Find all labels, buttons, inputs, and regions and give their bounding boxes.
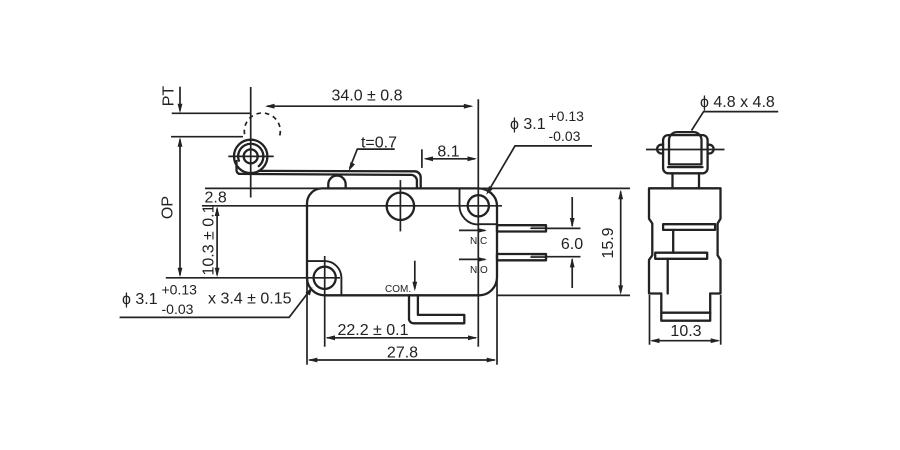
svg-text:PT: PT bbox=[161, 86, 178, 107]
svg-text:15.9: 15.9 bbox=[600, 227, 617, 258]
34.0 dim line bbox=[267, 105, 471, 107]
rv body outline bbox=[649, 188, 721, 293]
svg-text:ϕ 3.1: ϕ 3.1 bbox=[122, 291, 158, 308]
svg-text:22.2 ± 0.1: 22.2 ± 0.1 bbox=[337, 322, 408, 339]
svg-text:OP: OP bbox=[160, 196, 177, 219]
phi3.1 top leader bbox=[488, 146, 592, 192]
bottom-left mounting hole bbox=[314, 267, 336, 289]
roller inner arc bbox=[238, 144, 263, 166]
COM down arrow line bbox=[414, 261, 416, 289]
middle circle bbox=[387, 193, 414, 220]
lever strip top bbox=[259, 171, 421, 188]
rv 10.3 right ext bbox=[720, 295, 722, 345]
8.1 tick bbox=[421, 149, 423, 168]
15.9 arrows bbox=[618, 190, 623, 200]
rv roller bbox=[669, 132, 702, 164]
10.3 dim line bbox=[216, 209, 218, 275]
svg-text:ϕ 4.8 x 4.8: ϕ 4.8 x 4.8 bbox=[700, 94, 775, 111]
rv 10.3 dim line bbox=[652, 340, 719, 342]
top-right mounting hole bbox=[468, 195, 489, 216]
roller horizontal centreline bbox=[228, 155, 273, 157]
arrowheads bbox=[178, 104, 623, 363]
svg-text:27.8: 27.8 bbox=[387, 345, 418, 362]
bottom hole vertical centreline / 22.2 ext bbox=[324, 256, 326, 347]
svg-text:-0.03: -0.03 bbox=[549, 128, 581, 144]
bottom-left hole boss bbox=[308, 261, 342, 294]
phi3.1 bottom leader bbox=[120, 289, 311, 318]
svg-text:t=0.7: t=0.7 bbox=[361, 134, 397, 151]
svg-text:N.C: N.C bbox=[470, 236, 487, 247]
rv stem bbox=[673, 173, 700, 188]
svg-text:-0.03: -0.03 bbox=[162, 301, 194, 317]
middle circle vertical centreline bbox=[399, 180, 401, 231]
N.O terminal tip line bbox=[531, 256, 546, 258]
rv 10.3 left ext bbox=[649, 295, 651, 345]
rv inner vertical line bbox=[667, 259, 669, 294]
dashed circle free position bbox=[244, 113, 280, 139]
right vertical extension line bbox=[477, 99, 479, 347]
rv bar connector bbox=[672, 230, 674, 253]
svg-text:COM.: COM. bbox=[385, 284, 411, 295]
rv centreline bbox=[646, 149, 725, 151]
svg-text:10.3 ± 0.1: 10.3 ± 0.1 bbox=[201, 204, 218, 275]
rv 10.3 arrows bbox=[650, 338, 660, 343]
6.0 arrows bbox=[570, 218, 575, 228]
NO arrow line bbox=[459, 258, 485, 260]
COM arrowhead bbox=[412, 282, 417, 292]
lever bracket bbox=[237, 161, 417, 188]
PT dim line bbox=[179, 87, 181, 111]
15.9 dim line bbox=[620, 192, 622, 293]
N.O terminal bbox=[531, 254, 546, 257]
OP arrows bbox=[178, 137, 183, 147]
svg-text:10.3: 10.3 bbox=[670, 323, 701, 340]
NO arrowhead bbox=[479, 257, 488, 261]
rv axle tab right bbox=[708, 145, 714, 154]
bottom hole horizontal centreline bbox=[166, 277, 340, 279]
COM terminal bbox=[409, 295, 464, 323]
rv terminal bar 2 bbox=[655, 253, 707, 259]
rv fork bbox=[663, 135, 708, 173]
roller outer bbox=[234, 140, 267, 173]
OP line bbox=[171, 136, 243, 138]
8.1 dim line bbox=[426, 158, 476, 160]
22.2 arrows bbox=[326, 335, 336, 340]
OP dim line bbox=[179, 140, 181, 276]
svg-text:8.1: 8.1 bbox=[437, 144, 459, 161]
6.0 top arrow line bbox=[571, 197, 573, 226]
N.C terminal tip line bbox=[531, 227, 546, 229]
6.0 top ext bbox=[547, 227, 581, 229]
6.0 bottom ext bbox=[547, 256, 581, 258]
NC arrowhead bbox=[479, 228, 488, 232]
t=0.7 arrowhead bbox=[349, 162, 355, 171]
plunger dome bbox=[328, 176, 345, 188]
rv fork inner line bbox=[668, 166, 703, 168]
svg-text:2.8: 2.8 bbox=[205, 190, 227, 207]
phi3.1 bottom arrowhead bbox=[306, 287, 313, 296]
svg-text:ϕ 3.1: ϕ 3.1 bbox=[510, 116, 546, 133]
free position line bbox=[172, 112, 251, 114]
top edge extension line bbox=[205, 187, 630, 189]
22.2 dim line bbox=[327, 337, 476, 339]
t=0.7 leader bbox=[350, 149, 395, 169]
phi3.1 top arrowhead bbox=[486, 186, 493, 195]
N.C terminal bbox=[531, 226, 546, 229]
top-right hole boss bbox=[460, 190, 498, 225]
NC arrow line bbox=[459, 229, 485, 231]
svg-text:6.0: 6.0 bbox=[561, 236, 583, 253]
rv plunger inner line bbox=[661, 312, 710, 314]
27.8 right ext bbox=[496, 278, 498, 365]
27.8 dim line bbox=[309, 359, 494, 361]
phi4.8 leader bbox=[692, 112, 779, 131]
svg-text:+0.13: +0.13 bbox=[549, 108, 585, 124]
34.0 arrows bbox=[265, 104, 275, 109]
roller vertical centreline bbox=[250, 87, 252, 198]
svg-text:N.O: N.O bbox=[470, 265, 488, 276]
rv bottom plunger bbox=[661, 294, 710, 321]
PT arrow down bbox=[178, 104, 183, 114]
rv terminal bar 1 bbox=[663, 224, 715, 230]
rv axle tab left bbox=[657, 145, 663, 154]
switch body outline bbox=[307, 188, 497, 295]
svg-text:+0.13: +0.13 bbox=[162, 282, 198, 298]
svg-text:34.0 ± 0.8: 34.0 ± 0.8 bbox=[331, 88, 402, 105]
27.8 left ext bbox=[306, 278, 308, 365]
bottom edge extension line bbox=[497, 294, 630, 296]
27.8 arrows bbox=[308, 358, 318, 363]
roller hub bbox=[244, 149, 258, 163]
hole centre line horizontal bbox=[202, 205, 502, 207]
6.0 bottom arrow line bbox=[571, 259, 573, 288]
svg-text:x 3.4 ± 0.15: x 3.4 ± 0.15 bbox=[208, 291, 292, 308]
10.3 arrows bbox=[215, 207, 220, 217]
8.1 arrows bbox=[424, 156, 434, 161]
